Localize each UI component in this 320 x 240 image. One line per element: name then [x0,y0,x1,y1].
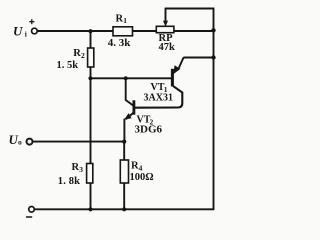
svg-text:1: 1 [123,16,127,25]
svg-text:3AX31: 3AX31 [144,92,173,103]
svg-text:1. 5k: 1. 5k [57,60,79,71]
svg-text:1. 8k: 1. 8k [58,176,80,187]
svg-text:3: 3 [79,165,83,174]
svg-text:47k: 47k [159,42,176,53]
svg-text:4. 3k: 4. 3k [108,37,132,49]
svg-text:o: o [18,138,22,147]
svg-text:VT: VT [151,82,165,93]
svg-text:U: U [13,24,23,39]
svg-text:100Ω: 100Ω [130,172,154,183]
svg-text:3DG6: 3DG6 [135,124,163,136]
svg-text:2: 2 [81,51,85,60]
svg-text:i: i [25,30,27,39]
svg-text:U: U [9,132,19,147]
